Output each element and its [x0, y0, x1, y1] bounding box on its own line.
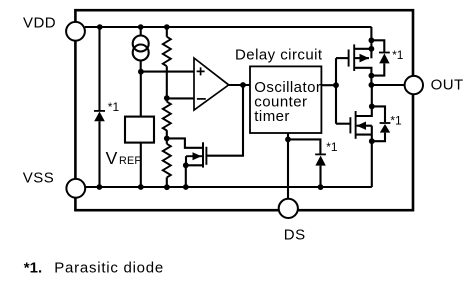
svg-text:V: V [106, 148, 118, 168]
svg-text:*1.: *1. [24, 260, 42, 277]
svg-text:*1: *1 [390, 113, 402, 127]
svg-text:DS: DS [284, 227, 306, 244]
svg-text:timer: timer [254, 108, 290, 125]
svg-text:VDD: VDD [23, 15, 56, 32]
svg-text:Delay circuit: Delay circuit [235, 46, 323, 63]
svg-text:VSS: VSS [23, 170, 54, 187]
svg-text:Parasitic diode: Parasitic diode [54, 260, 164, 277]
svg-text:REF: REF [119, 155, 141, 167]
svg-text:*1: *1 [392, 48, 404, 62]
svg-text:*1: *1 [108, 100, 120, 114]
svg-text:OUT: OUT [431, 77, 464, 94]
svg-text:*1: *1 [326, 140, 338, 154]
